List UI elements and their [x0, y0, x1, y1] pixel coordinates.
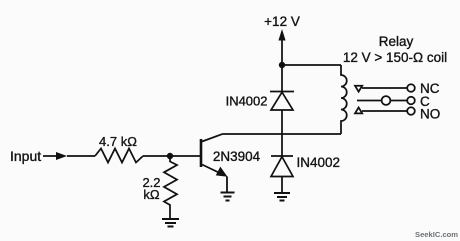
- resistor R1 4.7k zigzag: [95, 149, 143, 163]
- svg-text:12 V > 150-Ω coil: 12 V > 150-Ω coil: [343, 50, 447, 65]
- transistor Q1 2N3904: [201, 134, 223, 175]
- node dot at +12V: [279, 62, 285, 68]
- svg-text:IN4002: IN4002: [226, 94, 268, 109]
- svg-text:NO: NO: [420, 107, 440, 122]
- emitter wire down: [226, 177, 228, 193]
- svg-text:2N3904: 2N3904: [213, 149, 261, 164]
- relay contact NC: [355, 84, 415, 92]
- relay contact C (common): [357, 96, 415, 105]
- svg-text:Relay: Relay: [379, 34, 414, 49]
- diode D1 IN4002 (flyback, cathode up): [270, 92, 294, 135]
- wire node to D2: [281, 134, 283, 156]
- emitter arrowhead: [216, 167, 228, 177]
- diode D2 IN4002 (clamp, cathode up): [271, 156, 293, 193]
- svg-text:SeekIC.com: SeekIC.com: [415, 230, 458, 239]
- resistor R2 2.2k vertical zigzag: [164, 156, 177, 219]
- svg-text:4.7 kΩ: 4.7 kΩ: [99, 134, 137, 149]
- input arrow: [43, 152, 67, 160]
- junction node dot: [167, 153, 173, 159]
- ground under R2: [162, 219, 179, 227]
- +12V arrow up: [278, 29, 285, 41]
- svg-text:IN4002: IN4002: [297, 155, 341, 170]
- wire R1 to base: [143, 155, 201, 157]
- wire +12V node to coil top: [282, 64, 341, 66]
- svg-text:Input: Input: [10, 148, 41, 164]
- svg-text:+12 V: +12 V: [264, 14, 300, 29]
- wire input to R1: [67, 155, 95, 157]
- relay contact NO: [355, 107, 415, 115]
- wire +12V down to D1: [281, 65, 283, 92]
- svg-text:kΩ: kΩ: [143, 187, 160, 202]
- relay coil K1: [341, 65, 347, 134]
- wire collector horizontal to coil: [223, 133, 341, 135]
- ground under emitter: [221, 193, 235, 201]
- ground under D2: [274, 193, 290, 201]
